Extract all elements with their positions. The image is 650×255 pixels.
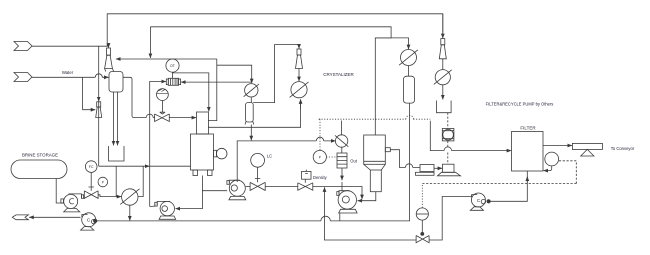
VC side nozzle [385,148,390,152]
svg-text:CRYSTALIZER: CRYSTALIZER [323,72,354,77]
bin B2 (open top) [437,101,452,113]
wire: feed drop to FC corner [98,46,100,101]
heat exchanger HX6 [291,82,307,98]
column C2 (cartridge) [246,103,254,123]
wire: V4 outlet run to pump P4 [313,187,362,200]
control valve V2 (steam to neck) [155,114,170,122]
junction dot at pump C1 suction [94,219,97,222]
ejector E2 (inline on feed drop) [97,102,101,107]
wire: D1 vapor outlet to steam valve run [123,77,142,117]
wire: OT branch to neck top arrow [173,73,209,112]
wire: pump C2 circuit into filter [490,171,527,201]
filtrate pump FP (circle) [545,152,559,166]
junction dot at pump C2 discharge [487,200,490,203]
wire: HX1 outlet up to feed line [138,166,143,196]
svg-text:P: P [102,180,104,184]
svg-text:P: P [319,155,321,159]
crystallizer CR1 legs [193,170,198,176]
instrument P5 [313,150,326,163]
density meter DM [302,171,311,179]
wire: valve V2 outlet arrow into crystallizer neck [169,117,196,119]
svg-text:Density: Density [313,175,328,180]
wire: HX4 top stub [341,121,343,136]
wire: HX1 drain to recycle line [129,205,131,220]
heat exchanger HX2 [401,50,417,66]
gauge G1 (diaphragm seal) [157,89,169,101]
column C3 (condensate receiver) [403,76,414,103]
wire: purge branch arrow up to slurry run [324,187,326,192]
svg-text:OT: OT [170,64,176,68]
wire: top manifold line L1 [107,14,443,46]
crystallizer CR1 body [191,134,214,170]
instrument FC [85,161,97,173]
off-page connector OUT1 (purge to battery limit) [12,215,28,220]
dashed control loop (filter/purge) [422,161,576,184]
crystallizer CR1 agitator nozzle [214,150,217,157]
dotted battery-limit line [319,115,431,119]
wire: C2 drain arrow onto transfer line [250,125,252,141]
wire: heater outlet (arrow drawn into heater right) [181,81,187,83]
wire: neck side take-off up into HX6 [208,104,300,128]
wire: vapor jog into HX2 [375,38,408,49]
heat exchanger HX3 [245,84,258,97]
crystallizer CR1 neck [197,112,209,134]
wire: pump PA discharge into heater riser [150,204,155,206]
svg-text:Out: Out [350,158,357,163]
control valve V4 (density) [298,183,313,190]
wire: vapor downcomer right of neck [208,59,216,121]
wire: water branch to ejector E2 [83,77,96,109]
wire: HX2 to column C3 [408,66,410,77]
tank T1 (brine storage) [11,160,67,179]
wire: FP suction from filter bottom [543,166,551,171]
rotary valve RV (blower) [442,129,454,141]
wire: drum outlet arrow down to pump P4 [341,168,343,180]
off-page connector IN2 (water inlet) [14,73,32,82]
wire: tank outlet to pump P1 [56,179,63,204]
wire: pump PB discharge through V3 [246,186,250,188]
svg-text:Water: Water [62,70,74,75]
ejector E1 [107,48,111,55]
wire: E4 to HX6 arrow [298,69,300,82]
sump bin B1 (open top) [109,146,125,161]
wire: E3 to HX5 [442,59,444,70]
wire: L2 drop arrow onto y59 line [149,27,151,58]
instrument FI (purge meter) [416,208,428,220]
off-page connector IN1 (top feed inlet) [14,42,32,51]
instrument dashed lead to FI [421,184,423,208]
wire: purge run up to pump C2 suction [429,197,471,241]
svg-text:C: C [87,218,91,223]
heater H1 (inline finned heater) [166,79,168,85]
pump PB (discharge) [227,181,229,185]
wire: inlet1 feed line [32,45,109,47]
wire: C2 vapor riser to ejector E4 [253,45,299,103]
wire: pump P4 base drain to recycle header [339,213,341,221]
wire: heater circulation riser from pump PA [150,82,166,207]
conveyor CV [572,143,602,149]
wire: HX3 to polishing column C2 [250,97,252,103]
heat exchanger HX5 [435,70,450,85]
control valve V1 (feed) [84,191,98,199]
wire: D1 bottom drains to sump [113,92,115,145]
wire: crystallizer bottom outlet to pump PA [176,176,203,209]
wire: purge drop to valve V5 (hops recycle header) [325,193,417,241]
wire: filtrate line to filter with hops [430,121,511,151]
pump PA (circulation) [155,202,157,206]
control valve V3 (level) [250,182,265,190]
wire: HX5 drain arrow into bin B2 [442,85,444,100]
wire: vapor line into ejector E3 [442,14,444,38]
instrument OT on vapor line [166,59,179,72]
pump C1 [82,213,96,227]
wire: arrow into ejector E1 top [108,43,110,48]
wire: crystallizer outlet branch to pump PB [202,190,227,192]
wire: filter discharge arrow to conveyor [543,145,572,147]
drum F1 (cartridge filter) [337,153,347,168]
wire: long recycle header with hop [97,103,410,221]
feeder FD2 [443,164,455,172]
vessel D1 (knock-out drum) [109,72,123,93]
wire: branch to HX3 column [217,65,252,83]
wire: VC bottom outlet to pump P4 suction [358,192,376,201]
wire: VC overflow to feeder FD1 (hops riser) [390,150,420,168]
wire: FD1 to FD2 arrow [434,167,442,169]
filter unit FL (box) [512,132,544,172]
pump P1 [61,199,64,203]
rotary valve RV dashed leads [447,113,449,165]
instrument PI [98,177,108,187]
wire: pump C1 discharge to off-page arrow [29,216,80,218]
pump P4 [337,192,339,196]
svg-text:BRINE STORAGE: BRINE STORAGE [22,153,58,158]
wire: pump P1 discharge to valve V1 [83,194,86,197]
heat exchanger HX1 [122,189,138,205]
control valve V5 (purge) [416,236,429,243]
ejector E3 [441,39,445,45]
instrument dashed leads P5 [319,119,337,157]
wire: valve V1 outlet with arrow into HX1 [98,195,121,197]
svg-text:To Conveyor: To Conveyor [611,146,635,151]
svg-text:LC: LC [267,153,272,158]
wire: branch down to HX1 inlet [115,166,117,196]
svg-text:C: C [477,198,481,203]
svg-text:FILTER: FILTER [520,126,536,131]
wire: water line into D1 with hop over feed drop [32,74,109,78]
wire: transfer line to HX4 with hop over instrument lead [237,137,335,182]
ejector E4 [297,49,301,55]
vacuum crystallizer body VC [364,135,386,164]
wire: HX4 to filter drum [341,147,343,153]
heat exchanger HX4 [335,135,347,147]
svg-text:FC: FC [89,165,94,169]
wire: vapor line y59 with arrow into ejector E1 [116,58,217,60]
feeder FD1 [420,165,434,172]
wire: feed line to crystallizer with arrow [99,165,150,167]
wire: steam desuperheat run with hop over heater riser [142,114,155,117]
svg-text:FILTER&RECYCLE PUMP by Others: FILTER&RECYCLE PUMP by Others [486,101,554,106]
pump C2 [471,193,485,207]
instrument LC [251,153,265,167]
wire: manifold line L2 [150,27,391,135]
